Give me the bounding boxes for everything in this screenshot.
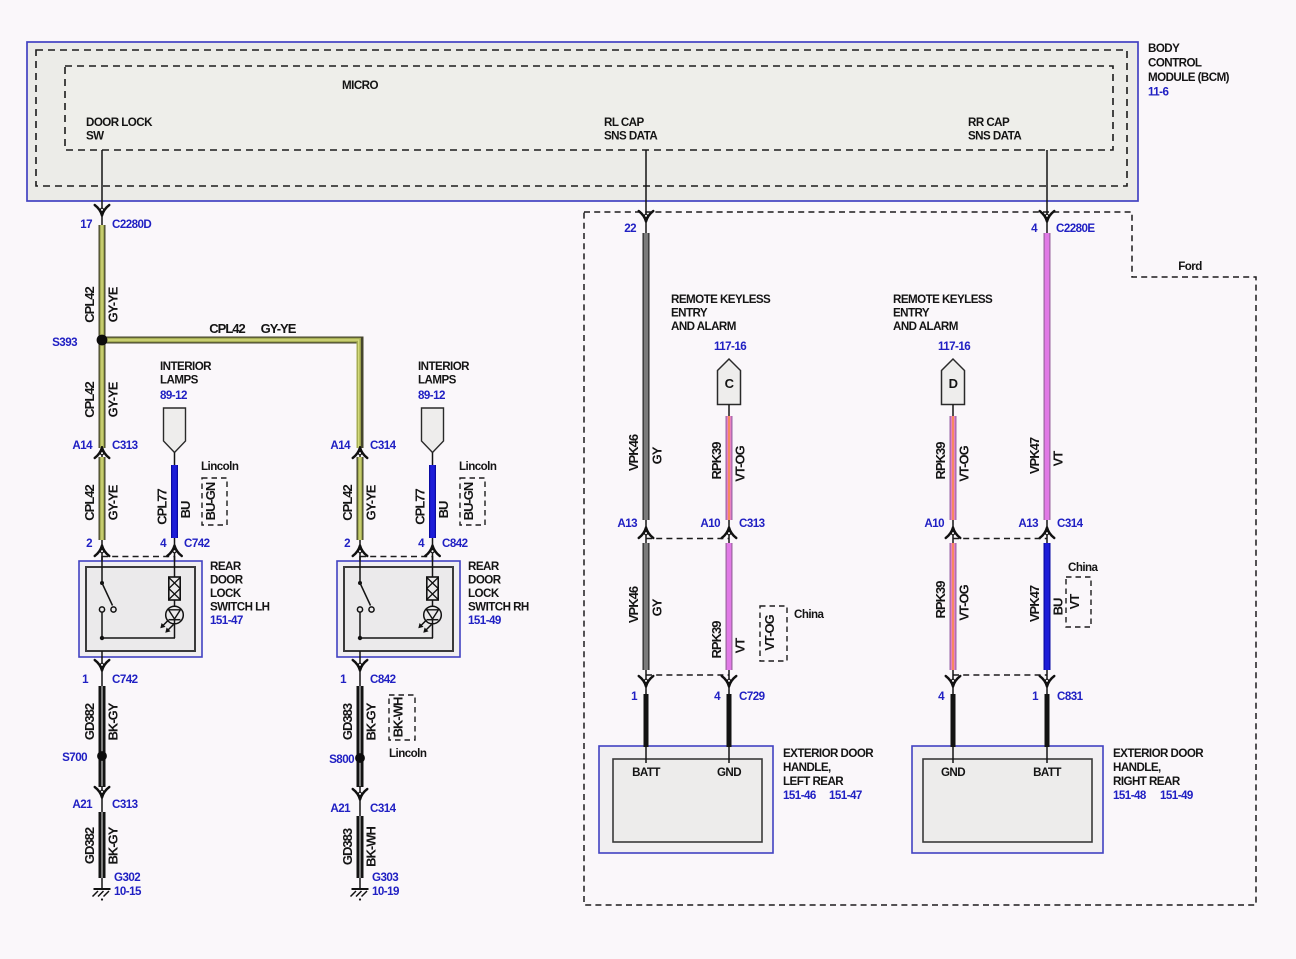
svg-text:BK-GY: BK-GY	[106, 826, 121, 864]
wire RPK39 VT-OG upper left	[709, 416, 748, 520]
svg-text:BU: BU	[436, 501, 451, 518]
svg-text:GD383: GD383	[340, 828, 355, 865]
svg-text:C742: C742	[112, 673, 138, 686]
svg-text:C314: C314	[370, 802, 397, 815]
svg-text:LEFT REAR: LEFT REAR	[783, 775, 844, 788]
off-page connector C (117-16)	[718, 359, 741, 417]
svg-text:RPK39: RPK39	[933, 581, 948, 619]
svg-text:Lincoln: Lincoln	[201, 460, 239, 473]
rear door lock switch LH box (151-47)	[79, 560, 270, 657]
svg-text:151-49: 151-49	[468, 614, 502, 627]
svg-text:1: 1	[82, 673, 89, 686]
wire VPK46 GY lower	[626, 543, 665, 670]
svg-text:GY-YE: GY-YE	[364, 484, 379, 520]
ground G302	[93, 871, 143, 901]
connector C2280D pin 17	[80, 205, 151, 231]
svg-text:C842: C842	[370, 673, 396, 686]
svg-text:A10: A10	[700, 517, 720, 530]
svg-text:VPK46: VPK46	[626, 434, 641, 471]
svg-text:G302: G302	[114, 871, 140, 884]
splice S393	[52, 335, 107, 349]
svg-text:C2280D: C2280D	[112, 218, 151, 231]
connector C2280E pin 4	[1031, 211, 1095, 235]
svg-text:SNS DATA: SNS DATA	[968, 130, 1022, 143]
svg-text:GY-YE: GY-YE	[106, 381, 121, 417]
wire VPK47 VT upper	[1027, 233, 1066, 520]
svg-text:A14: A14	[72, 439, 93, 452]
svg-text:AND ALARM: AND ALARM	[893, 320, 958, 333]
svg-text:A14: A14	[330, 439, 351, 452]
svg-text:HANDLE,: HANDLE,	[783, 761, 831, 774]
China variant VT box	[1066, 561, 1099, 627]
ground G303	[351, 871, 401, 901]
LED indicator RH	[418, 606, 441, 638]
svg-text:1: 1	[631, 690, 638, 703]
connector C729 pin 1	[631, 670, 653, 703]
svg-text:151-48: 151-48	[1113, 789, 1147, 802]
svg-text:BU: BU	[178, 501, 193, 518]
svg-text:VT: VT	[733, 638, 748, 654]
svg-text:4: 4	[714, 690, 721, 703]
svg-text:1: 1	[1032, 690, 1039, 703]
Ford variant dashed region	[584, 212, 1256, 905]
svg-text:G303: G303	[372, 871, 399, 884]
LED indicator LH	[160, 606, 183, 638]
svg-text:GY-YE: GY-YE	[106, 286, 121, 322]
MICRO inner block	[65, 66, 1113, 150]
svg-text:BODY: BODY	[1148, 42, 1180, 55]
wire CPL42 GY-YE below S393	[82, 344, 121, 448]
wire GD382 BK-GY upper	[82, 686, 121, 787]
wire from BCM RR CAP SNS DATA (thin)	[1046, 150, 1048, 234]
svg-text:ENTRY: ENTRY	[893, 307, 930, 320]
svg-text:CPL42: CPL42	[82, 485, 97, 521]
svg-text:VPK46: VPK46	[626, 586, 641, 623]
wire CPL77 BU LH	[155, 465, 194, 538]
svg-text:REAR: REAR	[210, 560, 242, 573]
svg-text:REMOTE KEYLESS: REMOTE KEYLESS	[893, 293, 993, 306]
svg-text:INTERIOR: INTERIOR	[418, 360, 470, 373]
Lincoln variant BU-GN box LH	[201, 460, 239, 525]
svg-text:VPK47: VPK47	[1027, 585, 1042, 622]
svg-text:1: 1	[340, 673, 347, 686]
svg-text:C314: C314	[1057, 517, 1084, 530]
svg-text:DOOR LOCK: DOOR LOCK	[86, 116, 153, 129]
svg-text:AND ALARM: AND ALARM	[671, 320, 736, 333]
connector C2280E pin 22	[624, 211, 653, 235]
svg-text:LAMPS: LAMPS	[418, 374, 457, 387]
connector C831 pin 1	[1032, 670, 1084, 703]
svg-text:CPL42: CPL42	[340, 485, 355, 521]
svg-text:GY-YE: GY-YE	[106, 484, 121, 520]
svg-text:VPK47: VPK47	[1027, 437, 1042, 474]
svg-text:117-16: 117-16	[938, 340, 971, 353]
svg-text:C313: C313	[112, 439, 139, 452]
svg-text:GND: GND	[717, 766, 741, 779]
svg-text:A10: A10	[924, 517, 944, 530]
svg-text:BU: BU	[1051, 598, 1066, 615]
svg-text:LAMPS: LAMPS	[160, 374, 199, 387]
svg-text:C742: C742	[184, 537, 210, 550]
svg-text:BK-WH: BK-WH	[390, 697, 405, 737]
svg-text:2: 2	[86, 537, 92, 550]
wire GD383 BK-WH lower	[340, 816, 379, 878]
exterior door handle left rear box	[599, 746, 773, 853]
connector C742 pin 4	[160, 537, 210, 561]
connector C742 pin 1	[82, 651, 138, 688]
svg-text:10-19: 10-19	[372, 885, 400, 898]
svg-text:89-12: 89-12	[418, 389, 445, 402]
svg-text:4: 4	[160, 537, 167, 550]
remote keyless entry label C	[671, 293, 771, 353]
svg-text:151-47: 151-47	[210, 614, 243, 627]
connector C729 dashed link	[646, 674, 729, 676]
BCM title text	[1148, 42, 1230, 99]
svg-text:Lincoln: Lincoln	[389, 747, 427, 760]
svg-text:ENTRY: ENTRY	[671, 307, 708, 320]
svg-text:151-47: 151-47	[829, 789, 862, 802]
svg-text:C2280E: C2280E	[1056, 222, 1095, 235]
svg-text:RIGHT REAR: RIGHT REAR	[1113, 775, 1181, 788]
svg-text:RL CAP: RL CAP	[604, 116, 644, 129]
svg-text:BK-GY: BK-GY	[364, 702, 379, 740]
connector C742 dashed link	[102, 556, 175, 558]
splice S700	[62, 751, 107, 764]
svg-text:LOCK: LOCK	[468, 587, 500, 600]
svg-text:GD382: GD382	[82, 703, 97, 740]
wire CPL42 GY-YE horizontal branch to C314	[102, 321, 360, 448]
svg-text:SNS DATA: SNS DATA	[604, 130, 658, 143]
svg-text:10-15: 10-15	[114, 885, 142, 898]
resistor in switch RH	[427, 556, 438, 607]
splice S800	[329, 753, 365, 766]
svg-text:CPL42: CPL42	[82, 382, 97, 418]
Lincoln variant BK-WH box	[389, 695, 427, 760]
svg-text:BATT: BATT	[1033, 766, 1061, 779]
svg-text:MODULE (BCM): MODULE (BCM)	[1148, 71, 1230, 84]
wire from BCM RL CAP SNS DATA (thin)	[645, 150, 647, 234]
svg-text:BU-GN: BU-GN	[203, 482, 218, 520]
svg-text:RPK39: RPK39	[933, 442, 948, 480]
wire CPL42 GY-YE lower right	[340, 457, 379, 540]
connector C314 pin A14	[330, 439, 396, 459]
svg-text:C729: C729	[739, 690, 766, 703]
svg-text:C313: C313	[739, 517, 766, 530]
svg-text:CPL42: CPL42	[82, 287, 97, 323]
svg-text:BATT: BATT	[632, 766, 660, 779]
svg-text:REAR: REAR	[468, 560, 500, 573]
connector C842 pin 1	[340, 651, 396, 688]
wire GD383 BK-GY upper	[340, 686, 379, 787]
interior lamps feed symbol RH (89-12)	[418, 360, 470, 466]
svg-text:GND: GND	[941, 766, 965, 779]
exterior door handle right rear box	[912, 746, 1103, 853]
wire VPK47 BU lower	[1027, 543, 1066, 670]
svg-text:C313: C313	[112, 798, 139, 811]
svg-text:89-12: 89-12	[160, 389, 187, 402]
svg-text:HANDLE,: HANDLE,	[1113, 761, 1161, 774]
resistor in switch LH	[169, 556, 180, 607]
svg-text:RR CAP: RR CAP	[968, 116, 1010, 129]
BCM module outer box (Body Control Module)	[27, 42, 1138, 201]
wire RPK39 VT-OG lower	[933, 543, 972, 670]
exterior door handle left rear label	[783, 747, 874, 802]
svg-text:GY-YE: GY-YE	[261, 321, 297, 336]
svg-text:S700: S700	[62, 751, 87, 764]
interior lamps feed symbol LH (89-12)	[160, 360, 212, 466]
wire to right handle GND	[951, 694, 956, 763]
svg-text:4: 4	[938, 690, 945, 703]
svg-text:VT-OG: VT-OG	[762, 614, 777, 650]
svg-text:CONTROL: CONTROL	[1148, 57, 1202, 70]
remote keyless entry label D	[893, 293, 993, 353]
svg-text:151-46: 151-46	[783, 789, 817, 802]
svg-text:MICRO: MICRO	[342, 79, 378, 92]
connector C842 dashed link	[360, 556, 433, 558]
switch contacts RH	[357, 556, 433, 640]
svg-text:2: 2	[344, 537, 350, 550]
svg-text:117-16: 117-16	[714, 340, 747, 353]
svg-text:EXTERIOR DOOR: EXTERIOR DOOR	[1113, 747, 1204, 760]
connector C314 pin A10	[924, 517, 960, 544]
svg-text:BK-GY: BK-GY	[106, 702, 121, 740]
svg-text:China: China	[794, 608, 825, 621]
svg-text:S393: S393	[52, 336, 78, 349]
svg-text:17: 17	[80, 218, 92, 231]
svg-text:CPL77: CPL77	[155, 489, 170, 525]
svg-text:BK-WH: BK-WH	[364, 827, 379, 867]
svg-text:VT-OG: VT-OG	[957, 445, 972, 481]
wire CPL42 GY-YE lower left	[82, 457, 121, 540]
svg-text:A21: A21	[330, 802, 351, 815]
connector C314 dashed link	[953, 538, 1047, 540]
connector C842 pin 2	[344, 537, 367, 561]
svg-text:DOOR: DOOR	[210, 574, 244, 587]
svg-text:SW: SW	[86, 130, 104, 143]
wire to left handle BATT	[644, 694, 649, 763]
svg-text:C831: C831	[1057, 690, 1084, 703]
svg-text:CPL77: CPL77	[413, 489, 428, 525]
wire RPK39 VT-OG upper right	[933, 416, 972, 520]
off-page connector D (117-16)	[942, 359, 965, 417]
Lincoln variant BU-GN box RH	[459, 460, 497, 525]
svg-text:A13: A13	[617, 517, 638, 530]
svg-text:C842: C842	[442, 537, 468, 550]
connector C729 pin 4	[714, 670, 766, 703]
connector C313 dashed link	[646, 538, 729, 540]
svg-text:EXTERIOR DOOR: EXTERIOR DOOR	[783, 747, 874, 760]
svg-text:VT-OG: VT-OG	[957, 584, 972, 620]
svg-text:RPK39: RPK39	[709, 621, 724, 659]
connector C314 pin A21	[330, 786, 396, 817]
connector C313 pin A13	[617, 517, 653, 544]
China variant VT-OG box	[760, 606, 825, 661]
svg-text:DOOR: DOOR	[468, 574, 502, 587]
svg-text:SWITCH RH: SWITCH RH	[468, 601, 529, 614]
svg-text:REMOTE KEYLESS: REMOTE KEYLESS	[671, 293, 771, 306]
svg-text:A21: A21	[72, 798, 93, 811]
svg-text:D: D	[949, 376, 958, 391]
rear door lock switch RH box (151-49)	[337, 560, 529, 657]
svg-text:11-6: 11-6	[1148, 86, 1169, 99]
connector C842 pin 4	[418, 537, 468, 561]
svg-text:22: 22	[624, 222, 636, 235]
svg-text:VT: VT	[1051, 451, 1066, 467]
svg-text:A13: A13	[1018, 517, 1039, 530]
wire GD382 BK-GY lower	[82, 812, 121, 878]
wire VPK46 GY upper	[626, 233, 665, 520]
svg-text:BU-GN: BU-GN	[461, 482, 476, 520]
svg-text:151-49: 151-49	[1160, 789, 1194, 802]
svg-text:GD382: GD382	[82, 827, 97, 864]
connector C313 pin A21	[72, 786, 138, 813]
wire CPL42 GY-YE upper	[82, 225, 121, 338]
svg-text:4: 4	[418, 537, 425, 550]
wire RPK39 VT lower	[709, 543, 748, 670]
svg-text:GD383: GD383	[340, 703, 355, 740]
connector C831 pin 4	[938, 670, 960, 703]
wire to left handle GND	[727, 694, 732, 763]
svg-text:China: China	[1068, 561, 1099, 574]
svg-text:S800: S800	[329, 753, 354, 766]
svg-text:VT: VT	[1067, 594, 1082, 610]
connector C314 pin A13	[1018, 517, 1083, 544]
svg-text:GY: GY	[650, 446, 665, 464]
svg-text:SWITCH LH: SWITCH LH	[210, 601, 270, 614]
exterior door handle right rear label	[1113, 747, 1204, 802]
svg-text:CPL42: CPL42	[209, 321, 245, 336]
connector C313 pin A10	[700, 517, 765, 544]
connector C313 pin A14	[72, 439, 138, 459]
wire from BCM DOOR LOCK SW (thin)	[101, 150, 103, 226]
svg-text:LOCK: LOCK	[210, 587, 242, 600]
svg-text:4: 4	[1031, 222, 1038, 235]
svg-text:RPK39: RPK39	[709, 442, 724, 480]
connector C742 pin 2	[86, 537, 109, 561]
wire CPL77 BU RH	[413, 465, 452, 538]
svg-text:VT-OG: VT-OG	[733, 445, 748, 481]
wire to right handle BATT	[1045, 694, 1050, 763]
connector C831 dashed link	[953, 674, 1047, 676]
svg-text:Ford: Ford	[1178, 260, 1202, 273]
svg-text:INTERIOR: INTERIOR	[160, 360, 212, 373]
svg-text:C314: C314	[370, 439, 397, 452]
svg-text:C: C	[725, 376, 735, 391]
svg-text:Lincoln: Lincoln	[459, 460, 497, 473]
svg-text:GY: GY	[650, 598, 665, 616]
switch contacts LH	[99, 556, 175, 640]
